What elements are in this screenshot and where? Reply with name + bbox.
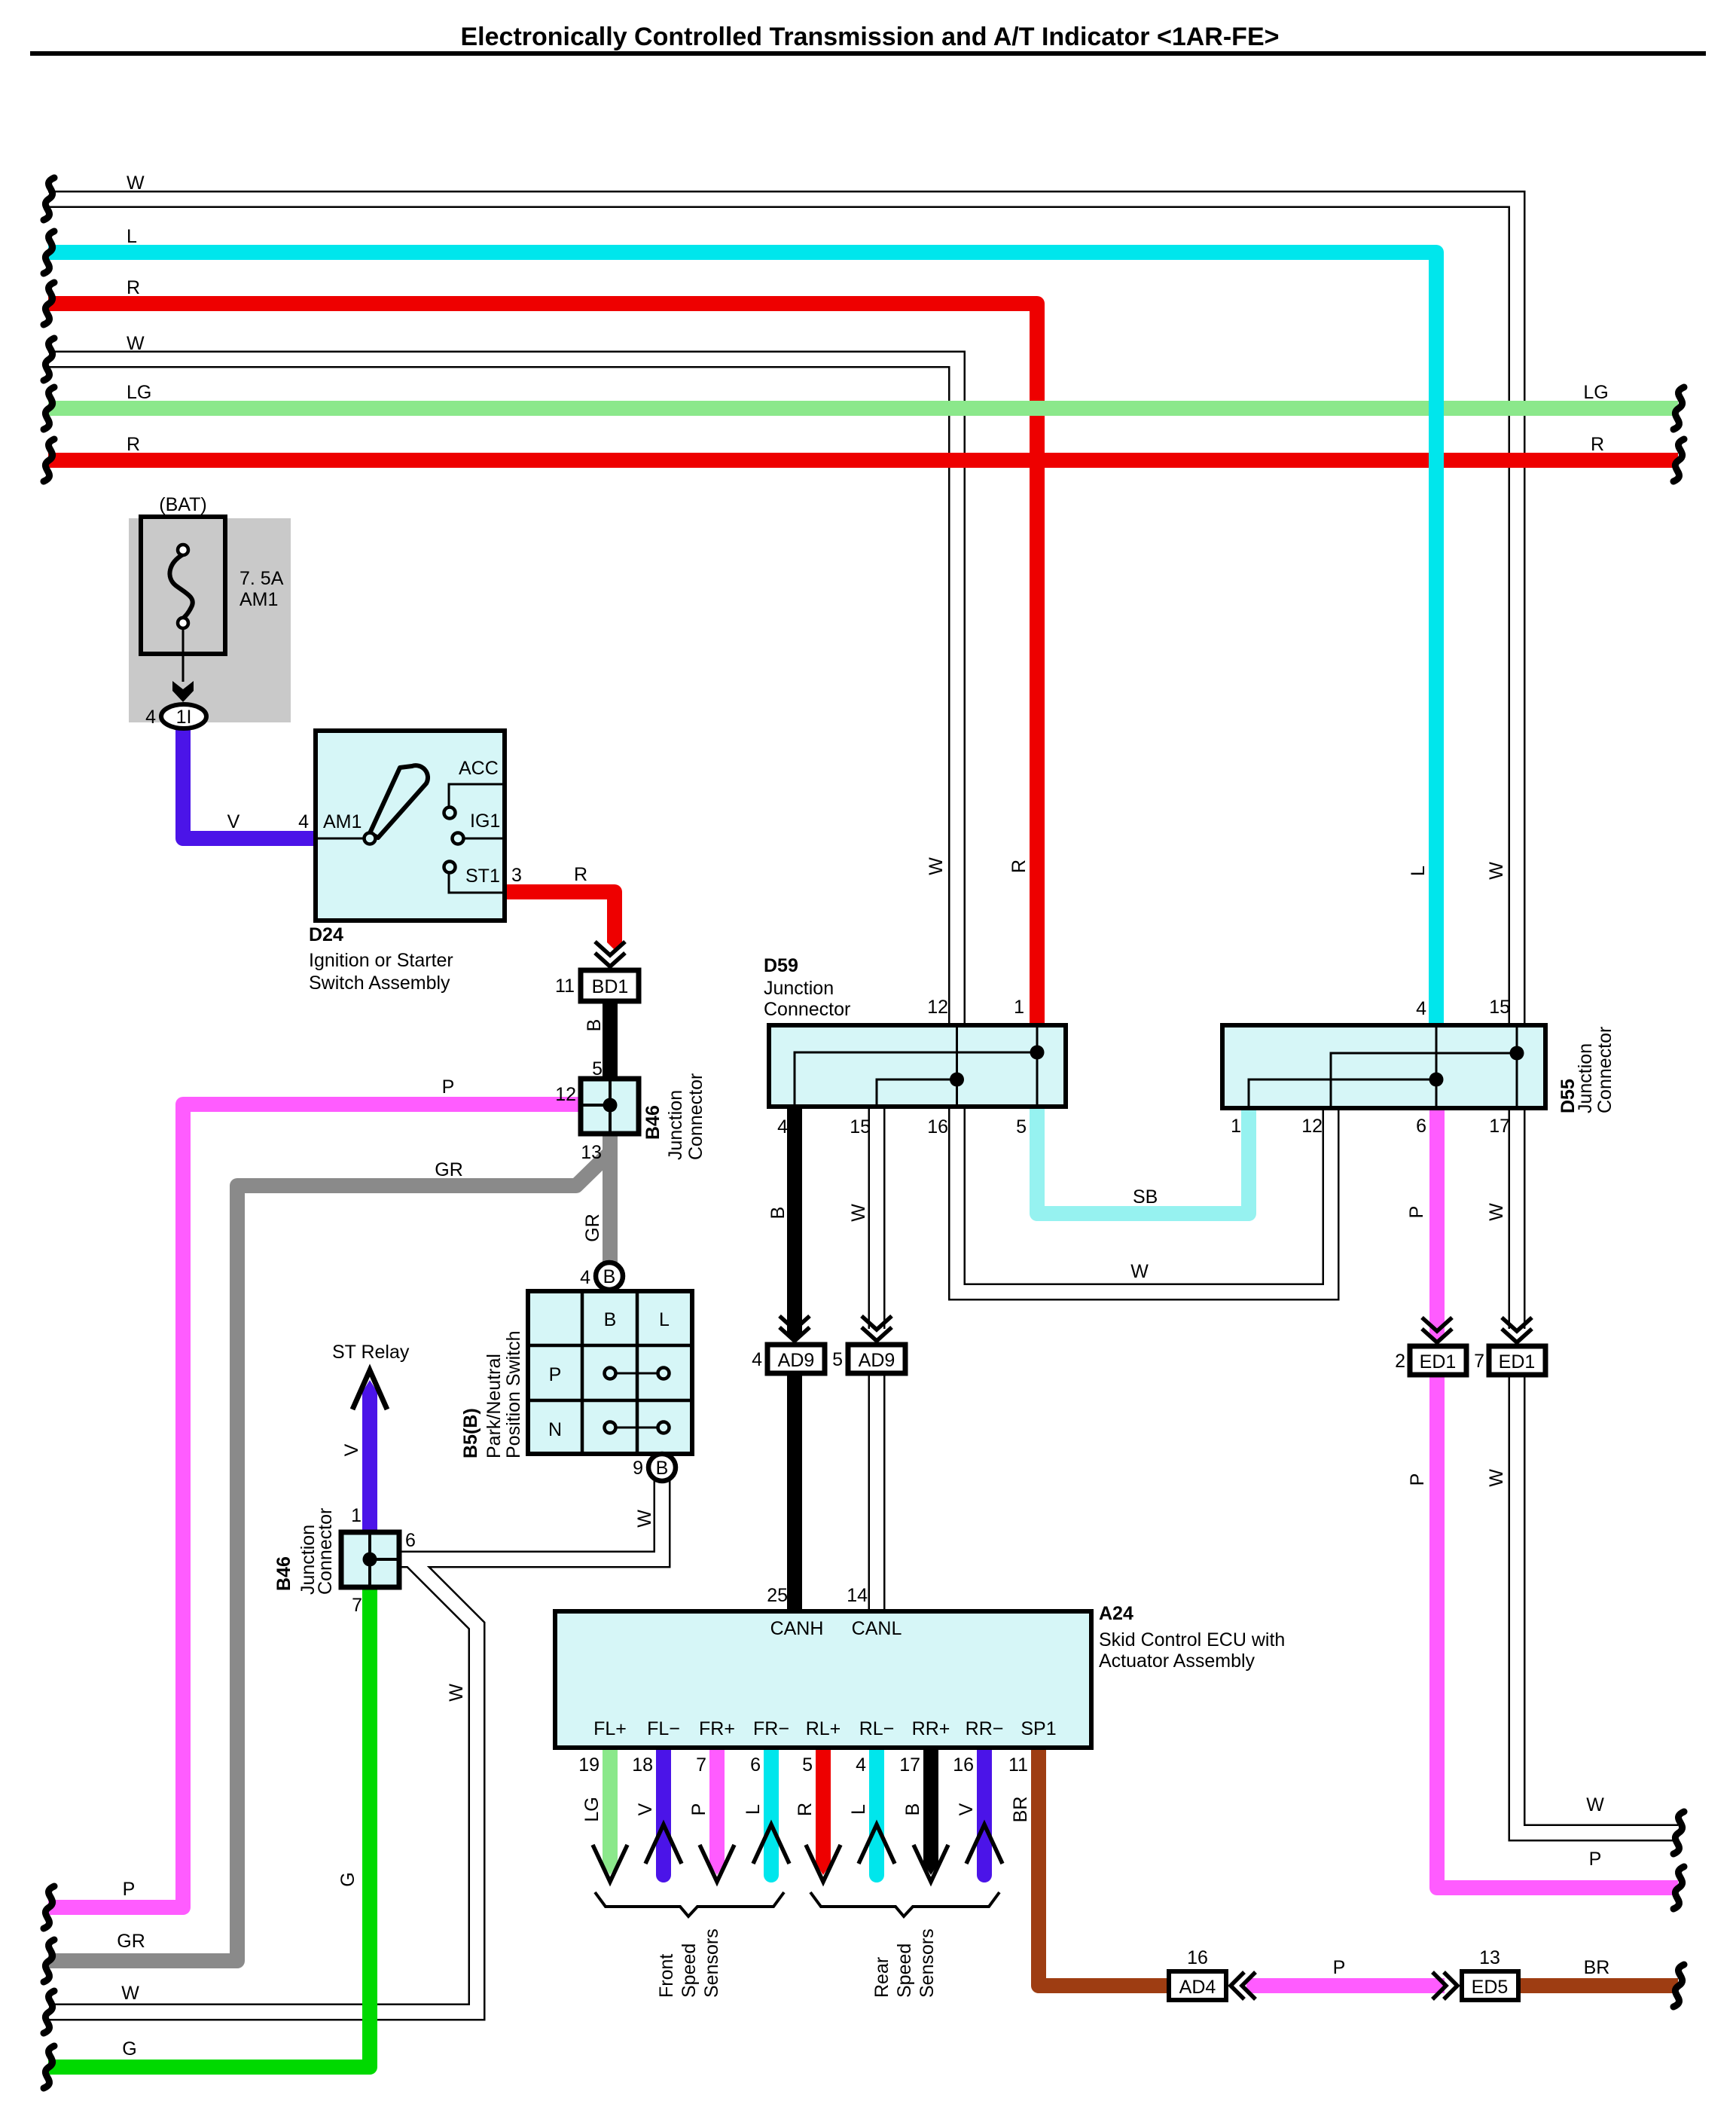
- arrow right into ED5: [1432, 1972, 1457, 1999]
- svg-text:17: 17: [899, 1754, 920, 1776]
- svg-text:G: G: [337, 1872, 358, 1886]
- wire B arrow tip at AD9: [787, 1326, 802, 1340]
- svg-text:W: W: [127, 173, 145, 194]
- svg-text:P: P: [123, 1879, 136, 1900]
- svg-text:B46: B46: [642, 1105, 664, 1140]
- svg-text:4: 4: [856, 1754, 866, 1776]
- svg-text:FR−: FR−: [753, 1718, 789, 1739]
- label wire LG rotated: [581, 1797, 603, 1821]
- svg-text:9: 9: [633, 1458, 643, 1479]
- svg-text:Sensors: Sensors: [701, 1928, 722, 1998]
- node B pin 9 circle: [648, 1454, 676, 1481]
- svg-text:B: B: [767, 1207, 789, 1220]
- svg-text:FL−: FL−: [647, 1718, 680, 1739]
- svg-text:G: G: [122, 2038, 136, 2060]
- fuse 7.5A AM1 box: [141, 517, 225, 682]
- svg-text:12: 12: [1301, 1116, 1323, 1137]
- svg-text:P: P: [1333, 1957, 1346, 1978]
- B5(B) park/neutral position switch box: [528, 1291, 692, 1454]
- svg-text:7: 7: [352, 1595, 362, 1616]
- wire BR ED5 to right edge: [1518, 1978, 1678, 1993]
- arrow up FL-: [645, 1824, 682, 1864]
- wire break symbol BR right: [1673, 1965, 1684, 2007]
- AD9 connector box pin 5: [848, 1345, 905, 1373]
- svg-text:Actuator Assembly: Actuator Assembly: [1099, 1650, 1255, 1672]
- svg-text:P: P: [1406, 1206, 1427, 1219]
- wire break symbol R left 1: [44, 282, 54, 325]
- arrow into BD1: [595, 942, 625, 966]
- svg-text:L: L: [743, 1804, 764, 1815]
- wire B D59 pin 4 to AD9: [787, 1107, 802, 1327]
- svg-text:19: 19: [578, 1754, 600, 1776]
- fuse output arrowhead: [172, 681, 194, 702]
- svg-text:P: P: [1407, 1473, 1428, 1486]
- label wire B rotated D59-4: [767, 1207, 789, 1220]
- svg-text:GR: GR: [582, 1214, 603, 1242]
- svg-text:4: 4: [777, 1116, 788, 1137]
- svg-text:W: W: [926, 857, 947, 875]
- svg-text:W: W: [1486, 1469, 1507, 1487]
- wire GR B46 pin 13 to B5(B) pin 4: [603, 1134, 618, 1263]
- wire W D59 pin 16 to D55 pin 12: [957, 1107, 1332, 1292]
- svg-text:16: 16: [1187, 1947, 1208, 1968]
- B46 junction connector lower box: [341, 1532, 399, 1587]
- label wire W rotated x633: [446, 1684, 467, 1702]
- wire break symbol W left 1: [44, 178, 54, 220]
- svg-text:25: 25: [767, 1585, 788, 1606]
- arrow into ED1 pin 7: [1502, 1318, 1532, 1342]
- wire break symbol W right: [1673, 1812, 1684, 1854]
- svg-text:ED1: ED1: [1420, 1351, 1457, 1373]
- svg-text:Park/Neutral: Park/Neutral: [484, 1354, 505, 1458]
- svg-text:V: V: [956, 1803, 977, 1815]
- svg-text:P: P: [549, 1364, 562, 1385]
- wire L A24 pin 6 FR-: [764, 1748, 779, 1875]
- arrow up RL-: [859, 1824, 895, 1864]
- label wire R rotated top: [1008, 860, 1030, 873]
- svg-text:W: W: [1486, 1203, 1507, 1221]
- svg-text:B: B: [902, 1803, 923, 1816]
- wire P arrow tip at ED1: [1429, 1326, 1445, 1340]
- svg-text:D59: D59: [764, 955, 798, 976]
- wire V ST relay to B46 pin 1: [362, 1391, 377, 1532]
- svg-text:V: V: [341, 1443, 362, 1456]
- wire P B46 pin 12 to bottom left: [48, 1104, 581, 1907]
- svg-text:Junction: Junction: [665, 1090, 686, 1160]
- svg-text:N: N: [548, 1419, 562, 1440]
- svg-text:ED1: ED1: [1499, 1351, 1536, 1373]
- arrow ST relay: [352, 1370, 387, 1409]
- svg-text:11: 11: [1008, 1754, 1028, 1776]
- label wire B rotated: [584, 1019, 605, 1032]
- label wire W rotated top2: [1486, 862, 1507, 880]
- wire P D55 pin 6 to ED1: [1429, 1108, 1445, 1327]
- svg-text:5: 5: [832, 1349, 843, 1370]
- svg-text:4: 4: [298, 811, 309, 832]
- label wire B rotated 17: [902, 1803, 923, 1816]
- svg-text:7. 5A: 7. 5A: [240, 568, 284, 589]
- svg-text:2: 2: [1395, 1351, 1405, 1372]
- wire BR A24 pin 11 SP1 to AD4: [1039, 1748, 1169, 1986]
- svg-text:W: W: [848, 1204, 869, 1222]
- label wire R rotated 5: [795, 1803, 816, 1816]
- wire break symbol G left: [44, 2046, 54, 2088]
- svg-text:W: W: [127, 333, 145, 354]
- svg-text:14: 14: [847, 1585, 868, 1606]
- label B46 lower rotated: [273, 1556, 294, 1591]
- D55 junction connector box: [1222, 1025, 1545, 1108]
- label wire L rotated 6: [743, 1804, 764, 1815]
- svg-text:13: 13: [581, 1142, 602, 1163]
- svg-text:RR−: RR−: [966, 1718, 1004, 1739]
- label D55 rotated: [1558, 1079, 1579, 1113]
- wire B AD9 to A24 pin 25: [787, 1373, 802, 1611]
- svg-text:Switch Assembly: Switch Assembly: [309, 973, 450, 994]
- svg-text:4: 4: [1416, 998, 1426, 1019]
- svg-text:7: 7: [696, 1754, 706, 1776]
- svg-text:Rear: Rear: [871, 1957, 892, 1998]
- BD1 connector box: [581, 970, 639, 1001]
- svg-text:CANH: CANH: [770, 1618, 824, 1639]
- svg-text:V: V: [635, 1803, 656, 1815]
- svg-text:4: 4: [580, 1267, 590, 1288]
- svg-text:Position Switch: Position Switch: [503, 1330, 524, 1458]
- AD9 connector box pin 4: [767, 1345, 825, 1373]
- svg-text:1: 1: [1014, 997, 1024, 1018]
- svg-text:R: R: [574, 864, 587, 885]
- wire break symbol P left: [44, 1886, 54, 1928]
- svg-text:D24: D24: [309, 924, 343, 945]
- svg-text:15: 15: [1489, 997, 1510, 1018]
- svg-text:AM1: AM1: [240, 589, 278, 610]
- wire LG row5 bus: [48, 401, 1678, 416]
- label park neutral rotated: [484, 1354, 505, 1458]
- label wire G rotated: [337, 1872, 358, 1886]
- svg-text:W: W: [634, 1510, 655, 1528]
- svg-text:Sensors: Sensors: [917, 1928, 938, 1998]
- svg-text:Speed: Speed: [679, 1944, 700, 1998]
- svg-text:AM1: AM1: [323, 811, 362, 832]
- svg-text:Junction: Junction: [1575, 1043, 1596, 1113]
- svg-text:Front: Front: [656, 1954, 677, 1998]
- arrow down FR+: [700, 1845, 734, 1882]
- connector 1I oval: [161, 704, 206, 728]
- label wire V rotated: [341, 1443, 362, 1456]
- wire break symbol LG left: [44, 387, 54, 429]
- wire B BD1 to B46 pin 5: [603, 1001, 618, 1079]
- svg-text:13: 13: [1479, 1947, 1500, 1968]
- wire W top bus 1 to D55 pin 15: [48, 200, 1517, 1026]
- arrow left into AD4: [1231, 1972, 1255, 1999]
- svg-text:L: L: [848, 1804, 869, 1815]
- wire P AD4 to ED5: [1246, 1978, 1445, 1993]
- wire W AD9 to A24 pin 14: [868, 1373, 886, 1611]
- label B5B rotated: [460, 1408, 481, 1458]
- svg-text:V: V: [227, 811, 240, 832]
- svg-text:W: W: [1586, 1794, 1604, 1815]
- svg-text:B: B: [604, 1309, 617, 1330]
- svg-text:RL−: RL−: [859, 1718, 895, 1739]
- arrow up FR-: [753, 1824, 789, 1864]
- wire W top bus 2 to D59 pin 12: [48, 359, 957, 1025]
- wire R arrow tip at BD1: [607, 936, 622, 950]
- svg-text:BD1: BD1: [592, 976, 629, 997]
- wire R D24 ST1 to BD1: [505, 892, 615, 937]
- svg-text:18: 18: [632, 1754, 653, 1776]
- wire break symbol LG right: [1673, 387, 1684, 429]
- label junction connector lower rotated: [297, 1525, 319, 1595]
- label wire W rotated below ED1: [1486, 1469, 1507, 1487]
- svg-text:6: 6: [405, 1530, 416, 1551]
- label wire W rotated D59-15: [848, 1204, 869, 1222]
- svg-text:7: 7: [1474, 1351, 1484, 1372]
- label wire BR rotated 11: [1010, 1797, 1031, 1823]
- svg-text:BR: BR: [1010, 1797, 1031, 1823]
- svg-text:SP1: SP1: [1021, 1718, 1056, 1739]
- svg-text:B: B: [656, 1458, 669, 1479]
- svg-text:5: 5: [1016, 1116, 1027, 1137]
- wire W D59 pin 15 to AD9: [868, 1107, 886, 1329]
- svg-text:1: 1: [1231, 1116, 1241, 1137]
- svg-text:L: L: [127, 226, 137, 247]
- svg-text:15: 15: [850, 1116, 871, 1137]
- wire SB D59 pin 5 to D55 pin 1: [1037, 1107, 1249, 1214]
- ED1 connector box pin 7: [1489, 1346, 1545, 1375]
- label rear speed sensors rotated: [871, 1957, 892, 1998]
- svg-text:B5(B): B5(B): [460, 1408, 481, 1458]
- svg-text:Connector: Connector: [1594, 1027, 1615, 1113]
- label wire L rotated top: [1408, 866, 1429, 876]
- svg-text:W: W: [1486, 862, 1507, 880]
- svg-text:6: 6: [1416, 1116, 1426, 1137]
- wire LG A24 pin 19 FL+: [603, 1748, 618, 1866]
- svg-text:CANL: CANL: [852, 1618, 902, 1639]
- svg-text:RR+: RR+: [912, 1718, 950, 1739]
- battery fuse gray panel: [129, 518, 291, 722]
- ED1 connector box pin 2: [1410, 1346, 1466, 1375]
- svg-text:W: W: [446, 1684, 467, 1702]
- svg-text:LG: LG: [127, 382, 151, 403]
- wire W ED1 pin 7 to right edge: [1517, 1375, 1678, 1833]
- label wire P rotated 7: [688, 1803, 709, 1816]
- label wire L rotated 4: [848, 1804, 869, 1815]
- wire G B46 pin 7 to bottom left: [48, 1587, 370, 2067]
- label wire GR rotated: [582, 1214, 603, 1242]
- svg-text:R: R: [127, 434, 140, 455]
- wire V A24 pin 18 FL-: [656, 1748, 671, 1875]
- svg-text:16: 16: [953, 1754, 974, 1776]
- label front speed sensors rotated: [656, 1954, 677, 1998]
- svg-text:Connector: Connector: [685, 1073, 706, 1160]
- wire break symbol P right: [1673, 1867, 1684, 1909]
- wire V A24 pin 16 RR-: [977, 1748, 992, 1875]
- svg-text:P: P: [1589, 1849, 1602, 1870]
- wire V arrow tip ST relay: [362, 1380, 377, 1401]
- svg-text:ST Relay: ST Relay: [332, 1342, 410, 1363]
- svg-text:P: P: [688, 1803, 709, 1816]
- arrow into AD9 pin 4: [780, 1316, 810, 1341]
- D59 junction connector box: [769, 1025, 1066, 1107]
- svg-text:Junction: Junction: [764, 978, 834, 999]
- label wire W rotated D55-17: [1486, 1203, 1507, 1221]
- svg-text:A24: A24: [1099, 1603, 1133, 1624]
- arrow down FL+: [593, 1845, 627, 1882]
- wire P ED1 pin 2 to right edge: [1437, 1375, 1678, 1888]
- svg-text:1I: 1I: [176, 707, 192, 728]
- ED5 connector box: [1462, 1971, 1518, 2000]
- wire break symbol R right: [1673, 439, 1684, 481]
- svg-text:5: 5: [592, 1058, 603, 1079]
- wire V fuse 1I to D24 AM1: [183, 726, 316, 838]
- svg-text:B46: B46: [273, 1556, 294, 1591]
- svg-text:(BAT): (BAT): [159, 494, 206, 515]
- wire W B5(B) pin 9 to B46 pin 6: [48, 1481, 662, 2012]
- label wire P rotated below ED1: [1407, 1473, 1428, 1486]
- arrow into ED1 pin 2: [1422, 1318, 1452, 1342]
- wire break symbol W left 2: [44, 338, 54, 380]
- svg-text:4: 4: [145, 707, 156, 728]
- label wire W rotated near B9: [634, 1510, 655, 1528]
- svg-text:R: R: [1591, 434, 1604, 455]
- label wire V rotated 16: [956, 1803, 977, 1815]
- wire R A24 pin 5 RL+: [816, 1748, 831, 1866]
- svg-text:P: P: [442, 1076, 455, 1098]
- svg-text:R: R: [795, 1803, 816, 1816]
- brace front speed sensors: [595, 1892, 784, 1916]
- svg-text:5: 5: [802, 1754, 813, 1776]
- svg-text:W: W: [1130, 1261, 1149, 1282]
- wire L A24 pin 4 RL-: [869, 1748, 884, 1875]
- wire W D55 pin 17 to ED1: [1509, 1108, 1526, 1329]
- svg-text:GR: GR: [117, 1931, 145, 1952]
- label wire W rotated top1: [926, 857, 947, 875]
- svg-text:16: 16: [927, 1116, 948, 1137]
- svg-text:FL+: FL+: [593, 1718, 627, 1739]
- svg-text:AD4: AD4: [1179, 1977, 1216, 1998]
- svg-text:ACC: ACC: [459, 758, 499, 779]
- wire L row2 left bus to D55 pin 4: [48, 252, 1436, 1025]
- wire R row3 left bus to D59 pin 1: [48, 304, 1037, 1025]
- svg-text:12: 12: [927, 997, 948, 1018]
- wire GR branch to bottom left: [48, 1154, 609, 1961]
- svg-text:AD9: AD9: [859, 1350, 895, 1371]
- wire R row6 bus: [48, 453, 1678, 468]
- wire break symbol R left 2: [44, 439, 54, 481]
- svg-text:LG: LG: [1583, 382, 1608, 403]
- A24 skid control ECU box: [555, 1611, 1091, 1748]
- svg-text:FR+: FR+: [699, 1718, 735, 1739]
- wire break symbol W left 3: [44, 1991, 54, 2033]
- svg-text:ED5: ED5: [1472, 1977, 1509, 1998]
- svg-text:Speed: Speed: [894, 1944, 915, 1998]
- svg-text:AD9: AD9: [778, 1350, 815, 1371]
- svg-text:1: 1: [351, 1505, 362, 1526]
- label wire V rotated 18: [635, 1803, 656, 1815]
- svg-text:Connector: Connector: [315, 1508, 336, 1595]
- svg-text:BR: BR: [1584, 1957, 1610, 1978]
- svg-text:IG1: IG1: [470, 811, 500, 832]
- svg-text:4: 4: [752, 1349, 762, 1370]
- svg-text:B: B: [584, 1019, 605, 1032]
- svg-text:ST1: ST1: [465, 866, 500, 887]
- arrow into AD9 pin 5: [862, 1316, 892, 1341]
- svg-text:11: 11: [555, 976, 575, 997]
- brace rear speed sensors: [810, 1892, 999, 1916]
- label wire P rotated D55-6: [1406, 1206, 1427, 1219]
- svg-text:GR: GR: [435, 1159, 463, 1180]
- arrow down RL+: [806, 1845, 841, 1882]
- svg-text:SB: SB: [1133, 1186, 1158, 1208]
- title rule: [30, 51, 1706, 56]
- B46 junction connector upper box: [581, 1079, 639, 1134]
- svg-text:L: L: [659, 1309, 670, 1330]
- svg-text:LG: LG: [581, 1797, 603, 1821]
- svg-text:R: R: [1008, 860, 1030, 873]
- svg-text:Connector: Connector: [764, 999, 850, 1020]
- label B46 upper rotated: [642, 1105, 664, 1140]
- svg-text:3: 3: [511, 865, 522, 886]
- wire break symbol GR left: [44, 1940, 54, 1982]
- svg-text:Skid Control ECU with: Skid Control ECU with: [1099, 1629, 1285, 1650]
- svg-text:W: W: [121, 1983, 139, 2004]
- svg-text:12: 12: [555, 1084, 576, 1105]
- arrow up RR-: [966, 1824, 1002, 1864]
- label junction connector upper rotated: [665, 1090, 686, 1160]
- svg-text:R: R: [127, 277, 140, 298]
- AD4 connector box: [1169, 1971, 1226, 2000]
- wire break symbol L left: [44, 231, 54, 273]
- arrow down RR+: [914, 1845, 948, 1882]
- D24 ignition switch box: [316, 731, 505, 921]
- wire P A24 pin 7 FR+: [709, 1748, 725, 1866]
- svg-text:Electronically Controlled Tran: Electronically Controlled Transmission a…: [461, 23, 1280, 51]
- svg-text:Ignition or Starter: Ignition or Starter: [309, 950, 453, 971]
- svg-text:B: B: [603, 1266, 616, 1287]
- wire B A24 pin 17 RR+: [923, 1748, 938, 1866]
- svg-text:6: 6: [750, 1754, 761, 1776]
- svg-text:L: L: [1408, 866, 1429, 876]
- node B pin 4 circle: [596, 1263, 623, 1290]
- svg-text:RL+: RL+: [806, 1718, 841, 1739]
- svg-text:17: 17: [1489, 1116, 1510, 1137]
- wire W B46 branch to bottom left: [48, 1559, 477, 2012]
